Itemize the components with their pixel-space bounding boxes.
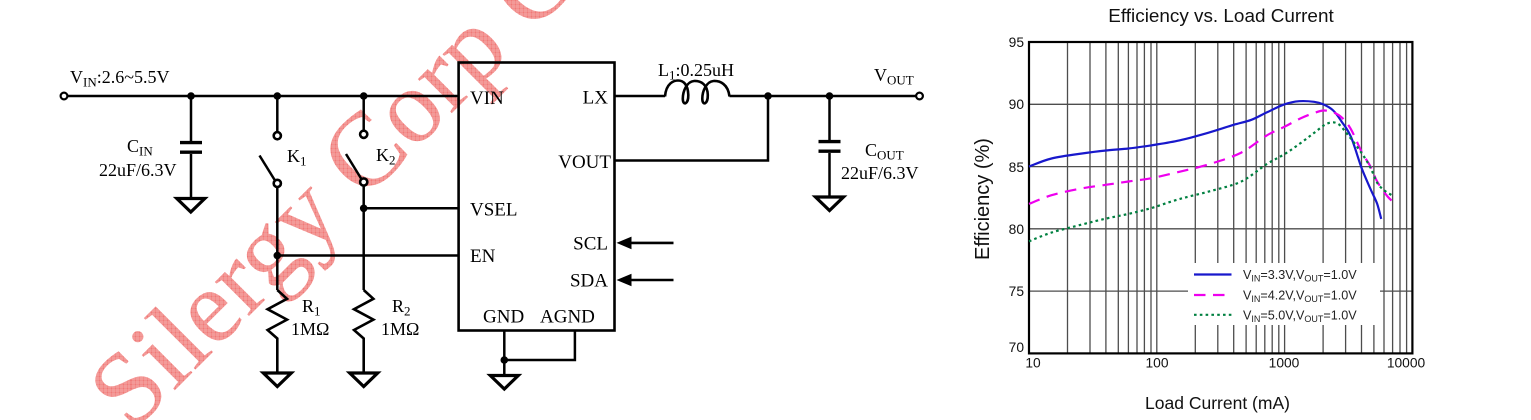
svg-text:75: 75 <box>1009 284 1025 299</box>
inductor L1 <box>665 81 730 104</box>
ground at GND/AGND <box>490 376 518 390</box>
arrow into SDA <box>617 274 674 287</box>
pin VSEL <box>470 200 518 221</box>
resistor R1 <box>268 290 287 373</box>
svg-text:70: 70 <box>1009 340 1025 355</box>
wire GND to ground <box>503 360 506 376</box>
node VOUT terminal <box>916 93 923 100</box>
svg-text:90: 90 <box>1009 97 1025 112</box>
ground at CIN <box>177 199 205 213</box>
wire LX to inductor <box>615 95 666 98</box>
svg-text:SDA: SDA <box>570 271 608 292</box>
switch K2 <box>346 96 367 290</box>
svg-text:100: 100 <box>1145 356 1168 371</box>
svg-text:95: 95 <box>1009 35 1025 50</box>
svg-text:VIN=5.0V,VOUT=1.0V: VIN=5.0V,VOUT=1.0V <box>1243 308 1357 324</box>
junction dot EN tap <box>274 252 282 260</box>
chart plot frame and grid <box>1029 42 1412 353</box>
pin SDA <box>570 271 608 292</box>
svg-text:22uF/6.3V: 22uF/6.3V <box>841 163 919 183</box>
svg-text:1000: 1000 <box>1269 356 1300 371</box>
pin VOUT <box>558 152 611 173</box>
curve VIN=3.3V blue <box>1029 101 1381 219</box>
svg-text:1MΩ: 1MΩ <box>291 319 329 339</box>
wire EN <box>277 254 458 257</box>
curve VIN=5.0V green dotted <box>1029 122 1392 241</box>
label K1 <box>287 146 307 169</box>
y axis label <box>972 138 994 260</box>
junction dot COUT <box>826 92 834 100</box>
wire VOUT pin feedback <box>615 96 769 161</box>
svg-text:10: 10 <box>1025 356 1041 371</box>
pin SCL <box>573 234 608 255</box>
wire VSEL <box>364 207 459 210</box>
wire GND pin down <box>503 331 506 361</box>
label 22uF/6.3V (CIN) <box>99 160 177 180</box>
legend background <box>1188 263 1380 325</box>
pin EN <box>470 246 496 267</box>
wire inductor to VOUT terminal <box>730 95 917 98</box>
pin GND <box>483 307 524 328</box>
label 22uF/6.3V (COUT) <box>841 163 919 183</box>
resistor R2 <box>354 290 373 373</box>
svg-text:AGND: AGND <box>540 307 595 328</box>
junction dot GND <box>501 356 509 364</box>
watermark Silergy Corp Confidential <box>66 0 919 420</box>
svg-text:VIN: VIN <box>470 88 504 109</box>
pin LX <box>583 88 609 109</box>
label K2 <box>376 145 396 168</box>
label CIN <box>127 136 153 159</box>
pin AGND <box>540 307 595 328</box>
svg-text:10000: 10000 <box>1387 356 1426 371</box>
label VIN:2.6~5.5V <box>70 67 169 90</box>
svg-text:22uF/6.3V: 22uF/6.3V <box>99 160 177 180</box>
svg-text:VIN=3.3V,VOUT=1.0V: VIN=3.3V,VOUT=1.0V <box>1243 268 1357 284</box>
svg-text:VOUT: VOUT <box>874 65 914 88</box>
y tick labels <box>1009 35 1025 355</box>
pin VIN <box>470 88 504 109</box>
junction dot VSEL tap <box>360 205 368 213</box>
op-amp U1 IC body <box>459 63 615 331</box>
svg-text:EN: EN <box>470 246 496 267</box>
label R1 <box>302 296 321 319</box>
svg-text:VOUT: VOUT <box>558 152 611 173</box>
svg-text:R2: R2 <box>392 296 411 319</box>
wire input rail VIN <box>68 95 459 98</box>
x axis label <box>1145 393 1290 413</box>
legend entry green <box>1194 308 1357 324</box>
svg-text:1MΩ: 1MΩ <box>381 319 419 339</box>
legend entry magenta <box>1194 289 1357 305</box>
switch K1 <box>260 96 281 290</box>
chart title <box>1108 6 1334 27</box>
svg-text:CIN: CIN <box>127 136 153 159</box>
svg-text:GND: GND <box>483 307 524 328</box>
arrow into SCL <box>617 237 674 250</box>
label 1MΩ (R1) <box>291 319 329 339</box>
capacitor CIN <box>180 96 202 199</box>
label 1MΩ (R2) <box>381 319 419 339</box>
junction dot at CIN <box>187 92 195 100</box>
svg-text:85: 85 <box>1009 160 1025 175</box>
svg-text:Efficiency vs. Load Current: Efficiency vs. Load Current <box>1108 6 1334 27</box>
svg-text:VIN=4.2V,VOUT=1.0V: VIN=4.2V,VOUT=1.0V <box>1243 289 1357 305</box>
ground at R2 <box>350 373 378 387</box>
x tick labels <box>1025 356 1425 371</box>
junction dot at K1 <box>274 92 282 100</box>
svg-text:VIN:2.6~5.5V: VIN:2.6~5.5V <box>70 67 169 90</box>
junction dot LX/VOUT <box>764 92 772 100</box>
ground at COUT <box>816 197 844 211</box>
curve VIN=4.2V magenta dashed <box>1029 110 1396 203</box>
svg-text:LX: LX <box>583 88 609 109</box>
svg-text:L1:0.25uH: L1:0.25uH <box>658 60 734 83</box>
svg-text:Load Current (mA): Load Current (mA) <box>1145 393 1290 413</box>
wire AGND pin down and across <box>504 331 575 361</box>
label R2 <box>392 296 411 319</box>
svg-text:80: 80 <box>1009 222 1025 237</box>
label L1:0.25uH <box>658 60 734 83</box>
svg-text:R1: R1 <box>302 296 321 319</box>
legend entry blue <box>1194 268 1357 284</box>
label COUT <box>865 140 904 163</box>
capacitor COUT <box>819 96 841 197</box>
svg-text:SCL: SCL <box>573 234 608 255</box>
svg-text:Efficiency (%): Efficiency (%) <box>972 138 994 260</box>
label VOUT <box>874 65 914 88</box>
svg-text:COUT: COUT <box>865 140 904 163</box>
node VIN input terminal <box>61 93 68 100</box>
svg-text:VSEL: VSEL <box>470 200 518 221</box>
junction dot at K2 <box>360 92 368 100</box>
ground at R1 <box>263 373 291 387</box>
